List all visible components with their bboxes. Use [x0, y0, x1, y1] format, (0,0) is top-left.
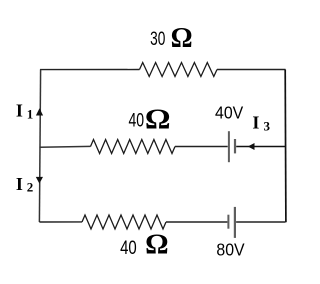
- svg-text:2: 2: [27, 180, 34, 195]
- svg-text:40V: 40V: [215, 102, 243, 122]
- svg-text:I: I: [252, 113, 259, 133]
- svg-text:Ω: Ω: [145, 104, 171, 135]
- svg-text:I: I: [16, 174, 23, 194]
- wire battery to bottom-right: [236, 221, 285, 223]
- svg-text:40: 40: [120, 238, 137, 259]
- wire right vertical: [284, 70, 287, 223]
- svg-text:I: I: [16, 101, 23, 121]
- battery V1 40V tall plate: [228, 131, 230, 162]
- wire battery to right: [236, 146, 285, 148]
- resistor R1 30ohm zigzag: [140, 63, 218, 77]
- svg-text:3: 3: [264, 119, 271, 134]
- battery V1 40V short plate: [234, 139, 236, 153]
- svg-text:Ω: Ω: [145, 230, 169, 261]
- svg-text:30: 30: [150, 29, 165, 50]
- svg-text:80V: 80V: [216, 239, 244, 259]
- arrow I2 down-pointing on left wire: [36, 177, 43, 184]
- svg-text:1: 1: [27, 106, 34, 121]
- svg-text:Ω: Ω: [171, 23, 193, 54]
- battery V2 80V tall plate: [234, 207, 236, 238]
- wire top-right segment: [217, 69, 286, 71]
- wire middle to battery: [175, 146, 228, 148]
- resistor R3 40ohm zigzag: [82, 215, 166, 229]
- arrow I1 up-pointing on left wire: [36, 108, 43, 115]
- wire bottom to battery: [166, 221, 227, 223]
- wire bottom-left segment: [39, 221, 82, 223]
- wire top-left segment: [40, 69, 140, 71]
- arrow I3 left-pointing: [248, 143, 255, 150]
- wire left vertical: [39, 70, 40, 223]
- resistor R2 40ohm zigzag: [91, 140, 176, 154]
- svg-text:40: 40: [129, 111, 145, 132]
- wire middle-left segment: [39, 145, 90, 148]
- battery V2 80V short plate: [227, 215, 229, 229]
